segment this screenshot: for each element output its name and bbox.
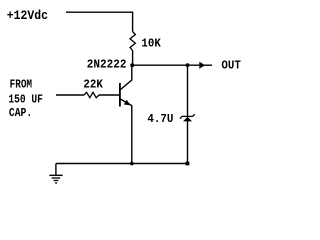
wire zener branch lower bbox=[187, 121, 189, 164]
svg-text:22K: 22K bbox=[83, 79, 103, 92]
node emitter bottom junction dot bbox=[130, 162, 134, 166]
node zener junction dot bbox=[186, 63, 190, 67]
diode D1 zener 4.7V bbox=[147, 114, 194, 127]
ground bbox=[49, 164, 62, 184]
wire from R2 to base bbox=[99, 94, 120, 96]
base bar bbox=[119, 83, 121, 107]
svg-text:OUT: OUT bbox=[221, 60, 241, 73]
svg-text:2N2222: 2N2222 bbox=[87, 58, 127, 72]
wire from cap to R2 bbox=[56, 94, 84, 96]
wire bottom rail bbox=[56, 163, 188, 165]
node OUT arrowhead bbox=[199, 62, 205, 69]
emitter lead with arrow bbox=[120, 99, 131, 164]
svg-text:FROM: FROM bbox=[10, 79, 32, 92]
wire zener branch upper bbox=[187, 65, 189, 116]
anode triangle bbox=[183, 117, 192, 122]
wire from R1 to collector node bbox=[132, 51, 134, 66]
cathode bar with bent ends bbox=[180, 114, 195, 119]
resistor R2 22K bbox=[83, 79, 103, 98]
svg-text:10K: 10K bbox=[141, 38, 161, 51]
wire top rail from +12Vdc to corner bbox=[66, 12, 133, 31]
collector lead bbox=[120, 65, 131, 89]
svg-text:150 UF: 150 UF bbox=[8, 94, 43, 107]
svg-text:CAP.: CAP. bbox=[9, 107, 32, 120]
svg-text:4.7U: 4.7U bbox=[147, 114, 173, 127]
wire OUT line bbox=[132, 64, 212, 66]
svg-text:+12Vdc: +12Vdc bbox=[7, 8, 48, 23]
resistor R1 10K bbox=[130, 32, 161, 51]
node FROM 150 UF CAP. label bbox=[8, 79, 43, 121]
node zener bottom junction dot bbox=[186, 162, 190, 166]
transistor Q1 2N2222 bbox=[87, 58, 132, 163]
node collector junction dot bbox=[130, 63, 134, 67]
